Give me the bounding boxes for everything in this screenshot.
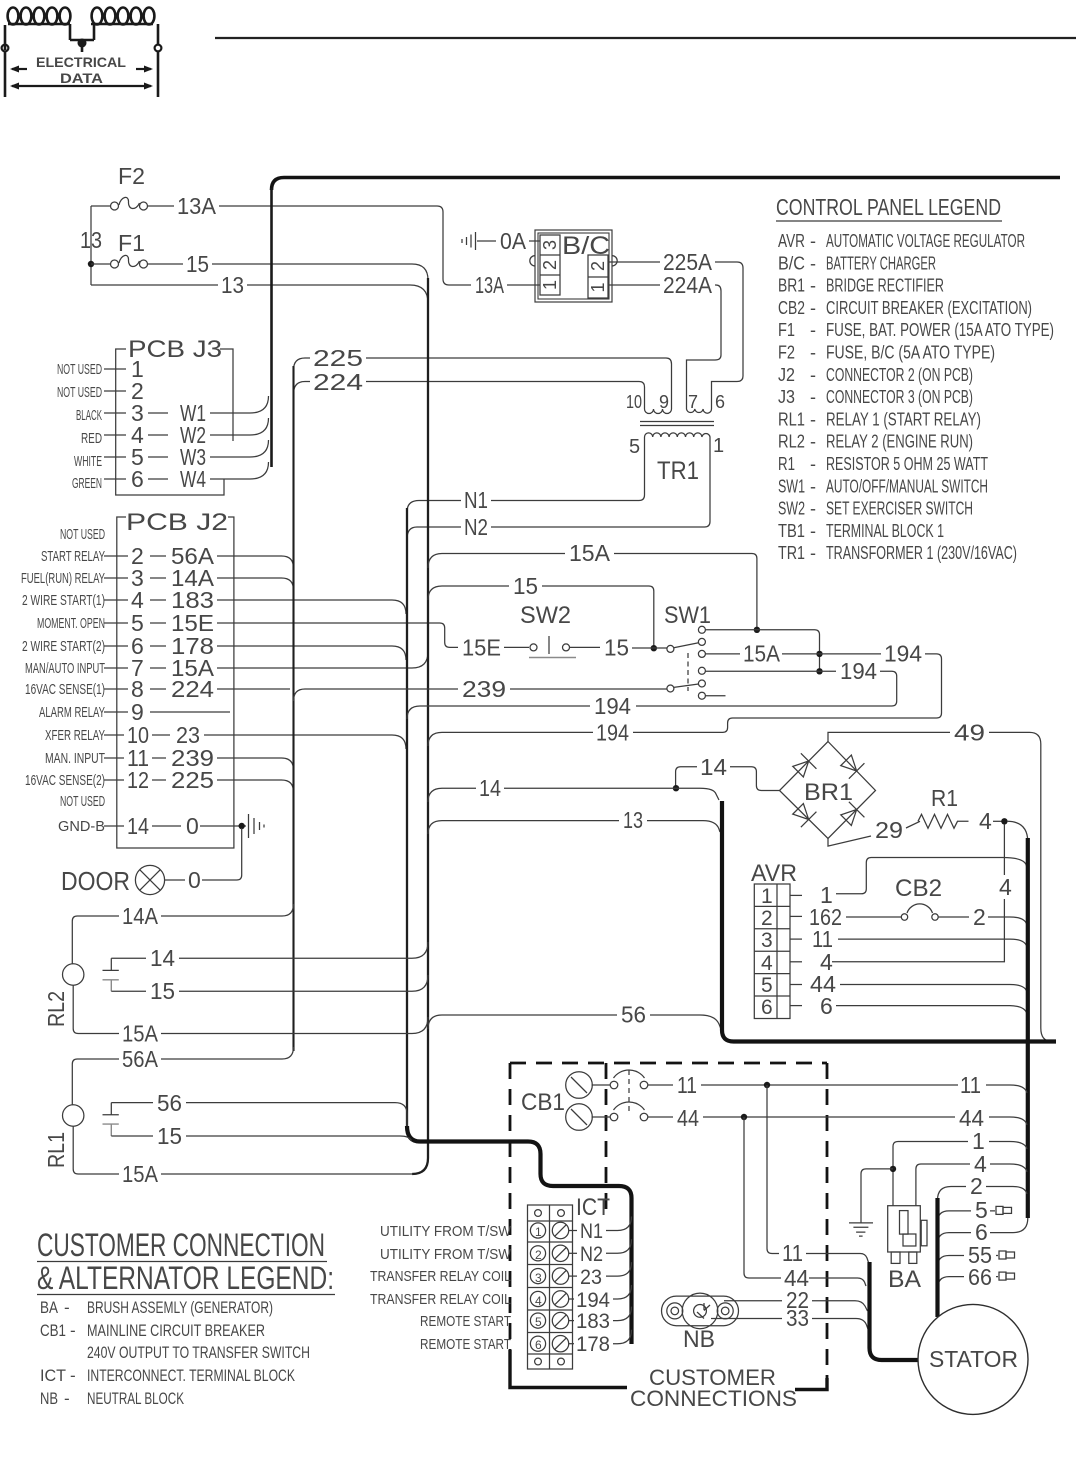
- wire 1 BA to harness: [893, 1142, 1027, 1206]
- svg-text:ICT: ICT: [576, 1194, 610, 1221]
- svg-text:-: -: [810, 231, 816, 251]
- svg-text:RELAY 2 (ENGINE RUN): RELAY 2 (ENGINE RUN): [826, 432, 973, 452]
- regulator AVR block: [754, 884, 790, 1019]
- switch SW1 poles: [667, 643, 699, 692]
- svg-text:1: 1: [761, 885, 773, 908]
- svg-text:15A: 15A: [569, 540, 611, 566]
- breaker CB1 pole1: [592, 1070, 674, 1089]
- svg-text:NB: NB: [683, 1326, 715, 1353]
- svg-text:225: 225: [171, 767, 214, 793]
- svg-text:DOOR: DOOR: [61, 866, 130, 896]
- svg-text:240V OUTPUT TO TRANSFER SWITCH: 240V OUTPUT TO TRANSFER SWITCH: [87, 1343, 310, 1362]
- svg-text:BR1: BR1: [778, 276, 805, 296]
- wire 2 CB2 to harness: [938, 917, 1027, 925]
- svg-text:9: 9: [659, 392, 669, 412]
- svg-text:RL2: RL2: [778, 432, 805, 452]
- wire 13A to B/C pin1: [507, 284, 540, 286]
- ICT terminal 6: [530, 1336, 568, 1352]
- svg-text:178: 178: [576, 1333, 610, 1356]
- svg-text:TB1: TB1: [778, 521, 805, 541]
- customer legend row BA: [40, 1298, 310, 1408]
- svg-text:GND-B: GND-B: [58, 818, 105, 835]
- resistor R1: [918, 814, 969, 828]
- svg-text:REMOTE START: REMOTE START: [420, 1313, 511, 1330]
- wire 4 vertical to AVR pin4: [832, 824, 1004, 962]
- svg-text:239: 239: [462, 676, 506, 702]
- svg-text:TERMINAL BLOCK 1: TERMINAL BLOCK 1: [826, 521, 944, 541]
- wire 224A from B/C pin1 to TR1 pin7: [608, 285, 721, 404]
- svg-text:3: 3: [535, 1271, 542, 1285]
- wire 4 R1 to junction: [993, 820, 1002, 822]
- svg-text:14A: 14A: [122, 903, 159, 929]
- svg-text:6: 6: [715, 392, 725, 412]
- svg-text:PCB J2: PCB J2: [126, 509, 228, 536]
- svg-text:4: 4: [999, 874, 1012, 900]
- svg-text:-: -: [810, 409, 816, 429]
- svg-text:6: 6: [761, 996, 773, 1019]
- svg-text:1: 1: [588, 282, 608, 292]
- switch SW1 gang link: [687, 653, 689, 691]
- svg-text:MOMENT. OPEN: MOMENT. OPEN: [37, 615, 105, 632]
- wire 11 CB1 to harness: [701, 1085, 1027, 1093]
- connector wire 55: [999, 1251, 1006, 1259]
- svg-text:7: 7: [688, 392, 698, 412]
- rectifier BR1: [780, 742, 876, 839]
- svg-text:-: -: [810, 387, 816, 407]
- svg-text:2 WIRE START(2): 2 WIRE START(2): [22, 638, 105, 655]
- junction 4: [1001, 818, 1007, 824]
- wire 15 RL2 to harness: [111, 975, 428, 991]
- wire SW1 top contact: [705, 630, 819, 670]
- junction F1: [88, 261, 94, 267]
- svg-text:B/C: B/C: [778, 253, 805, 273]
- wire 183 ICT: [569, 1320, 574, 1322]
- svg-text:16VAC SENSE(2): 16VAC SENSE(2): [25, 772, 105, 789]
- svg-text:TRANSFER RELAY COIL: TRANSFER RELAY COIL: [370, 1291, 511, 1308]
- svg-text:2: 2: [973, 904, 986, 930]
- svg-text:BA: BA: [40, 1298, 59, 1317]
- connector wire 5: [996, 1206, 1003, 1214]
- wire 14 BR1 branch: [676, 767, 780, 791]
- connector wire 66: [999, 1272, 1006, 1280]
- svg-text:4: 4: [979, 808, 992, 834]
- svg-text:0A: 0A: [500, 228, 527, 254]
- svg-text:ELECTRICAL: ELECTRICAL: [36, 54, 126, 70]
- svg-text:SW1: SW1: [778, 476, 805, 496]
- svg-text:N1: N1: [580, 1220, 603, 1243]
- logo dimension arrows: [10, 66, 153, 90]
- svg-text:-: -: [70, 1366, 76, 1385]
- junction 15 at SW2 output: [651, 645, 657, 651]
- svg-text:2: 2: [535, 1248, 542, 1262]
- wire 14 RL2 to harness: [111, 942, 428, 958]
- harness bus x406: [406, 508, 408, 1130]
- svg-text:2 WIRE START(1): 2 WIRE START(1): [22, 592, 105, 609]
- svg-text:2: 2: [761, 907, 773, 930]
- svg-text:-: -: [810, 432, 816, 452]
- svg-text:STATOR: STATOR: [929, 1346, 1018, 1372]
- battery charger B/C outer box: [535, 230, 612, 302]
- B/C connector J 12: [588, 255, 608, 298]
- svg-text:MAN. INPUT: MAN. INPUT: [45, 750, 105, 767]
- svg-text:ALARM RELAY: ALARM RELAY: [39, 704, 105, 721]
- svg-text:CB1: CB1: [40, 1321, 66, 1340]
- wire 56A RL1 to harness: [72, 1047, 293, 1105]
- BR1 diode lower-left: [790, 801, 816, 827]
- svg-text:225: 225: [313, 345, 363, 371]
- logo coil left: [5, 8, 70, 51]
- svg-text:-: -: [64, 1389, 70, 1408]
- wire 44 drop: [744, 1117, 866, 1286]
- svg-text:56: 56: [157, 1090, 182, 1116]
- svg-text:SW1: SW1: [664, 602, 711, 629]
- svg-text:REMOTE START: REMOTE START: [420, 1336, 511, 1353]
- lamp DOOR: [135, 865, 164, 894]
- wire 49 BR1 to right harness: [828, 732, 1056, 1041]
- generator STATOR: [918, 1304, 1028, 1414]
- svg-text:11: 11: [782, 1240, 803, 1266]
- customer connections box left: [509, 1063, 512, 1352]
- svg-text:15: 15: [157, 1123, 182, 1149]
- svg-text:-: -: [70, 1321, 76, 1340]
- svg-text:F2: F2: [118, 163, 145, 189]
- wire 14A RL2 to harness: [72, 904, 293, 964]
- wire 194 ICT: [569, 1298, 574, 1300]
- relay RL2 contact: [103, 958, 119, 970]
- svg-text:13: 13: [221, 272, 244, 298]
- junction 11: [764, 1082, 770, 1088]
- wire 56 harness to bundle: [428, 1015, 721, 1029]
- svg-text:W4: W4: [180, 466, 206, 492]
- wire 15 from F1 to harness: [212, 264, 428, 280]
- svg-text:15A: 15A: [122, 1021, 159, 1047]
- wire 4 BA to harness: [916, 1164, 1027, 1206]
- wire 29 BR1 to R1: [828, 821, 920, 846]
- wire 6 stator to harness: [938, 1218, 1028, 1244]
- wire 225A from B/C pin2 to TR1 pin6: [608, 262, 743, 404]
- svg-text:RESISTOR 5 OHM 25 WATT: RESISTOR 5 OHM 25 WATT: [826, 454, 988, 474]
- svg-text:14: 14: [700, 754, 727, 780]
- svg-text:FUEL(RUN) RELAY: FUEL(RUN) RELAY: [21, 570, 105, 587]
- svg-text:AUTOMATIC VOLTAGE REGULATOR: AUTOMATIC VOLTAGE REGULATOR: [826, 231, 1025, 251]
- svg-text:BA: BA: [888, 1266, 921, 1293]
- wire 66 stator stub: [938, 1277, 999, 1289]
- svg-text:16VAC SENSE(1): 16VAC SENSE(1): [25, 681, 105, 698]
- svg-text:14: 14: [150, 945, 175, 971]
- svg-text:UTILITY FROM T/SW: UTILITY FROM T/SW: [380, 1246, 512, 1263]
- svg-text:224A: 224A: [663, 272, 713, 298]
- junction SW1 riser upper: [816, 651, 822, 657]
- connector PCB J2 outline: [117, 517, 234, 848]
- wire 15A RL2 to harness: [73, 985, 428, 1033]
- breaker CB1 trip link: [628, 1070, 630, 1112]
- relay RL2 coil: [62, 964, 83, 985]
- AVR pin4 wire 4: [790, 961, 802, 963]
- svg-text:4: 4: [535, 1294, 542, 1308]
- AVR pin5 wire 44: [790, 984, 802, 986]
- svg-text:6: 6: [131, 466, 144, 492]
- svg-text:-: -: [810, 298, 816, 318]
- svg-text:5: 5: [761, 974, 773, 997]
- svg-text:N1: N1: [464, 487, 488, 513]
- svg-text:3: 3: [761, 929, 773, 952]
- svg-text:-: -: [810, 276, 816, 296]
- wire 0 door to ground: [165, 828, 242, 880]
- svg-text:13: 13: [623, 807, 643, 833]
- svg-text:RL1: RL1: [43, 1132, 69, 1168]
- svg-text:WHITE: WHITE: [74, 453, 102, 470]
- transformer TR1 secondary winding B: [687, 404, 712, 413]
- svg-text:SET EXERCISER SWITCH: SET EXERCISER SWITCH: [826, 499, 973, 519]
- svg-text:CUSTOMER CONNECTION: CUSTOMER CONNECTION: [37, 1227, 325, 1263]
- svg-text:44: 44: [677, 1105, 699, 1131]
- wire 0A to B/C pin3: [529, 240, 540, 242]
- breaker CB2: [901, 904, 938, 920]
- svg-text:BATTERY CHARGER: BATTERY CHARGER: [826, 253, 936, 273]
- svg-text:-: -: [810, 343, 816, 363]
- harness bus x1028: [1026, 838, 1030, 1218]
- svg-text:N2: N2: [464, 514, 488, 540]
- svg-text:XFER RELAY: XFER RELAY: [45, 727, 105, 744]
- svg-text:12: 12: [127, 767, 149, 793]
- wire 225 from harness to TR1 pin9: [294, 358, 672, 404]
- B/C latch bumps: [530, 256, 617, 266]
- svg-text:TRANSFER RELAY COIL: TRANSFER RELAY COIL: [370, 1268, 511, 1285]
- transformer TR1 core: [640, 422, 714, 426]
- breaker CB1 pole1 screw: [566, 1072, 593, 1099]
- junction GND-B: [239, 823, 245, 829]
- neutral block NB: [662, 1293, 739, 1329]
- svg-text:BLACK: BLACK: [76, 407, 102, 424]
- svg-text:56: 56: [621, 1002, 646, 1028]
- fuse F2: [91, 197, 174, 210]
- svg-text:BRUSH ASSEMLY (GENERATOR): BRUSH ASSEMLY (GENERATOR): [87, 1298, 273, 1317]
- svg-text:CONNECTOR 3 (ON PCB): CONNECTOR 3 (ON PCB): [826, 387, 973, 407]
- legend row AVR: [778, 231, 1054, 563]
- svg-text:6: 6: [820, 993, 833, 1019]
- svg-text:183: 183: [576, 1310, 610, 1333]
- svg-text:NOT USED: NOT USED: [60, 526, 105, 543]
- relay RL1 contact: [103, 1103, 119, 1115]
- wire 4 junction to harness: [1007, 821, 1028, 842]
- svg-text:2: 2: [540, 260, 560, 270]
- wire 178 ICT: [569, 1343, 574, 1345]
- svg-text:56A: 56A: [122, 1046, 159, 1072]
- svg-text:-: -: [810, 476, 816, 496]
- svg-text:13A: 13A: [475, 272, 504, 298]
- harness bus x293: [292, 366, 294, 1051]
- svg-text:15: 15: [186, 251, 209, 277]
- top rule: [215, 37, 1076, 39]
- junction 15A at SW1: [754, 627, 760, 633]
- svg-text:START RELAY: START RELAY: [41, 548, 105, 565]
- svg-text:194: 194: [884, 641, 922, 667]
- svg-text:1: 1: [713, 435, 724, 457]
- svg-text:DATA: DATA: [60, 70, 103, 86]
- svg-text:CB2: CB2: [895, 875, 942, 902]
- ICT terminal 4: [530, 1291, 568, 1307]
- relay RL1 coil: [62, 1105, 83, 1126]
- wire N1 ICT: [569, 1230, 577, 1232]
- svg-text:& ALTERNATOR LEGEND:: & ALTERNATOR LEGEND:: [37, 1260, 334, 1296]
- harness bus x428: [412, 278, 428, 1174]
- svg-text:CONTROL PANEL LEGEND: CONTROL PANEL LEGEND: [776, 194, 1001, 220]
- wire 194 harness x406 to SW1: [407, 706, 590, 719]
- wire 56 RL1 to harness: [111, 1103, 407, 1126]
- svg-text:MAINLINE CIRCUIT BREAKER: MAINLINE CIRCUIT BREAKER: [87, 1321, 265, 1340]
- breaker CB1 pole2 screw: [566, 1104, 593, 1131]
- wire 15A RL1 to harness tail: [73, 1126, 413, 1174]
- svg-text:NOT USED: NOT USED: [57, 361, 102, 378]
- svg-text:CONNECTOR 2 (ON PCB): CONNECTOR 2 (ON PCB): [826, 365, 973, 385]
- wire 15 RL1 to harness: [111, 1136, 411, 1141]
- svg-text:2: 2: [588, 261, 608, 271]
- wire 2 stator to harness: [938, 1187, 1028, 1201]
- wire 13 harness to bundle: [428, 821, 720, 834]
- svg-text:1: 1: [535, 1225, 542, 1239]
- svg-text:NEUTRAL BLOCK: NEUTRAL BLOCK: [87, 1389, 184, 1408]
- svg-text:6: 6: [535, 1338, 542, 1352]
- svg-text:49: 49: [954, 719, 985, 745]
- svg-text:194: 194: [840, 658, 877, 684]
- svg-text:15: 15: [604, 635, 629, 661]
- wire 22 NB to harness: [724, 1301, 868, 1311]
- svg-text:-: -: [810, 521, 816, 541]
- svg-text:F2: F2: [778, 343, 795, 363]
- wire N2 ICT: [569, 1252, 577, 1254]
- svg-text:-: -: [810, 499, 816, 519]
- customer connections box top: [510, 1062, 827, 1065]
- svg-text:INTERCONNECT. TERMINAL BLOCK: INTERCONNECT. TERMINAL BLOCK: [87, 1366, 295, 1385]
- svg-text:J3: J3: [778, 387, 795, 407]
- harness staircase to ICT: [407, 1126, 632, 1344]
- svg-text:4: 4: [761, 952, 773, 975]
- svg-text:MAN/AUTO INPUT: MAN/AUTO INPUT: [25, 660, 105, 677]
- svg-text:AUTO/OFF/MANUAL SWITCH: AUTO/OFF/MANUAL SWITCH: [826, 476, 988, 496]
- svg-text:ICT: ICT: [40, 1366, 66, 1385]
- svg-text:RED: RED: [81, 430, 102, 447]
- svg-text:CONNECTIONS: CONNECTIONS: [630, 1386, 797, 1411]
- svg-text:10: 10: [626, 392, 642, 412]
- svg-text:15E: 15E: [462, 635, 501, 661]
- svg-text:TR1: TR1: [657, 457, 699, 485]
- logo terminal right: [155, 45, 162, 52]
- ground GND-B: [249, 814, 265, 838]
- wire 14 harness to bundle: [428, 788, 719, 802]
- BR1 diode lower-right: [838, 802, 864, 828]
- BR1 diode upper-right: [838, 753, 864, 779]
- harness bundle x722: [722, 801, 1056, 1042]
- svg-text:15: 15: [513, 573, 538, 599]
- wire 224 from harness to TR1 pin10: [294, 382, 645, 405]
- svg-text:11: 11: [677, 1072, 697, 1098]
- ground BA: [849, 1169, 893, 1236]
- svg-text:-: -: [810, 543, 816, 563]
- wire SW1 stub: [705, 695, 725, 697]
- svg-text:CB2: CB2: [778, 298, 805, 318]
- ICT terminal 1: [530, 1222, 568, 1238]
- svg-text:2: 2: [970, 1173, 983, 1199]
- switch SW1 contacts: [698, 626, 705, 699]
- svg-text:FUSE, B/C (5A ATO TYPE): FUSE, B/C (5A ATO TYPE): [826, 343, 995, 363]
- harness bundle to stator left: [870, 1262, 920, 1360]
- svg-text:33: 33: [786, 1305, 809, 1331]
- ICT terminal 5: [530, 1312, 568, 1328]
- svg-text:J2: J2: [778, 365, 795, 385]
- svg-text:NB: NB: [40, 1389, 58, 1408]
- wire 15 SW2 to SW1 pole: [632, 647, 667, 649]
- customer connections box divider: [605, 1063, 608, 1213]
- svg-text:-: -: [64, 1298, 70, 1317]
- svg-text:194: 194: [594, 693, 631, 719]
- wire 33 NB to harness: [711, 1319, 868, 1330]
- svg-text:14: 14: [479, 775, 501, 801]
- svg-text:GREEN: GREEN: [72, 475, 102, 492]
- svg-text:11: 11: [960, 1072, 981, 1098]
- svg-text:CIRCUIT BREAKER (EXCITATION): CIRCUIT BREAKER (EXCITATION): [826, 298, 1032, 318]
- svg-text:RL2: RL2: [43, 991, 69, 1027]
- svg-text:0: 0: [188, 867, 201, 893]
- svg-text:R1: R1: [931, 785, 958, 811]
- svg-text:TRANSFORMER 1 (230V/16VAC): TRANSFORMER 1 (230V/16VAC): [826, 543, 1017, 563]
- svg-text:CB1: CB1: [521, 1089, 565, 1116]
- svg-text:RL1: RL1: [778, 409, 805, 429]
- wire 13 vertical F2-F1: [90, 206, 92, 285]
- logo center tap: [70, 40, 94, 52]
- B/C connector J 123: [540, 235, 560, 295]
- junction SW1 riser lower: [816, 668, 822, 674]
- switch SW2 base bar: [529, 657, 576, 659]
- wire 23 ICT: [569, 1275, 577, 1277]
- breaker CB1 pole2: [592, 1102, 674, 1121]
- terminal block ICT outline: [528, 1205, 573, 1369]
- wire 44 CB1 to harness: [703, 1117, 1027, 1125]
- svg-text:SW2: SW2: [520, 602, 571, 629]
- svg-text:RELAY 1 (START RELAY): RELAY 1 (START RELAY): [826, 409, 981, 429]
- svg-text:15A: 15A: [122, 1161, 159, 1187]
- wire 11 drop: [767, 1085, 869, 1264]
- svg-text:5: 5: [535, 1315, 542, 1329]
- svg-text:FUSE, BAT. POWER (15A ATO TYPE: FUSE, BAT. POWER (15A ATO TYPE): [826, 320, 1054, 340]
- svg-text:194: 194: [596, 719, 629, 745]
- svg-text:15A: 15A: [743, 641, 781, 667]
- wire 15A-194 SW1 mid contact: [633, 654, 942, 733]
- ICT terminal 3: [530, 1268, 568, 1284]
- svg-text:224: 224: [171, 676, 214, 702]
- svg-text:SW2: SW2: [778, 499, 805, 519]
- svg-text:1: 1: [540, 280, 560, 290]
- AVR pin2 wire 162: [790, 915, 802, 917]
- svg-text:194: 194: [576, 1289, 610, 1312]
- harness bundle stator top: [935, 1198, 939, 1317]
- svg-text:-: -: [810, 454, 816, 474]
- svg-text:AVR: AVR: [751, 860, 797, 887]
- junction 44: [741, 1114, 747, 1120]
- svg-text:23: 23: [580, 1266, 602, 1289]
- junction 14: [673, 785, 679, 791]
- wire N2 TR1 pin1 to harness: [407, 440, 710, 539]
- svg-text:N2: N2: [580, 1243, 603, 1266]
- svg-text:-: -: [810, 320, 816, 340]
- svg-text:13A: 13A: [177, 193, 217, 219]
- svg-text:R1: R1: [778, 454, 795, 474]
- junction BA ground: [890, 1166, 896, 1172]
- svg-text:3: 3: [540, 240, 560, 250]
- ground 0A: [462, 232, 496, 250]
- svg-text:15: 15: [150, 978, 175, 1004]
- wire 13A from F2 to B/C: [219, 206, 471, 285]
- switch SW2: [504, 636, 600, 654]
